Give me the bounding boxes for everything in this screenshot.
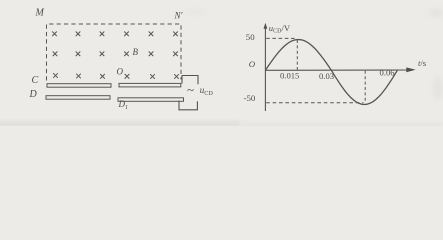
svg-text:-50: -50 — [244, 93, 256, 103]
svg-text:0.03: 0.03 — [319, 71, 334, 81]
svg-text:N′: N′ — [174, 10, 184, 20]
dashed line +50 to peak — [266, 37, 296, 39]
svg-text:50: 50 — [246, 32, 255, 42]
wire from rail D1 to source (bottom) — [179, 101, 197, 110]
svg-text:t/s: t/s — [418, 58, 427, 68]
graph y-axis — [264, 27, 266, 111]
rail C left segment — [47, 84, 111, 88]
svg-text:D: D — [29, 89, 38, 100]
svg-text:0.015: 0.015 — [280, 71, 299, 81]
svg-text:C: C — [32, 75, 39, 86]
wire from rail C to source (top) — [182, 76, 198, 85]
dashed line axis to trough — [364, 71, 366, 103]
rail C right segment — [119, 83, 181, 87]
svg-text:0.06: 0.06 — [380, 68, 396, 78]
dashed line -50 to trough — [266, 102, 363, 104]
svg-text:O: O — [117, 67, 124, 77]
svg-text:B: B — [133, 47, 139, 57]
svg-text:O: O — [249, 59, 256, 69]
svg-text:~: ~ — [187, 82, 194, 97]
sine curve u(t) — [265, 40, 397, 105]
B-field x marks — [52, 32, 179, 79]
svg-text:M: M — [35, 8, 45, 19]
rail D — [46, 96, 110, 100]
field boundary (dashed) — [47, 24, 182, 81]
graph x-axis — [265, 69, 407, 71]
dashed line peak to axis — [296, 40, 298, 70]
rail D1 — [118, 98, 184, 102]
